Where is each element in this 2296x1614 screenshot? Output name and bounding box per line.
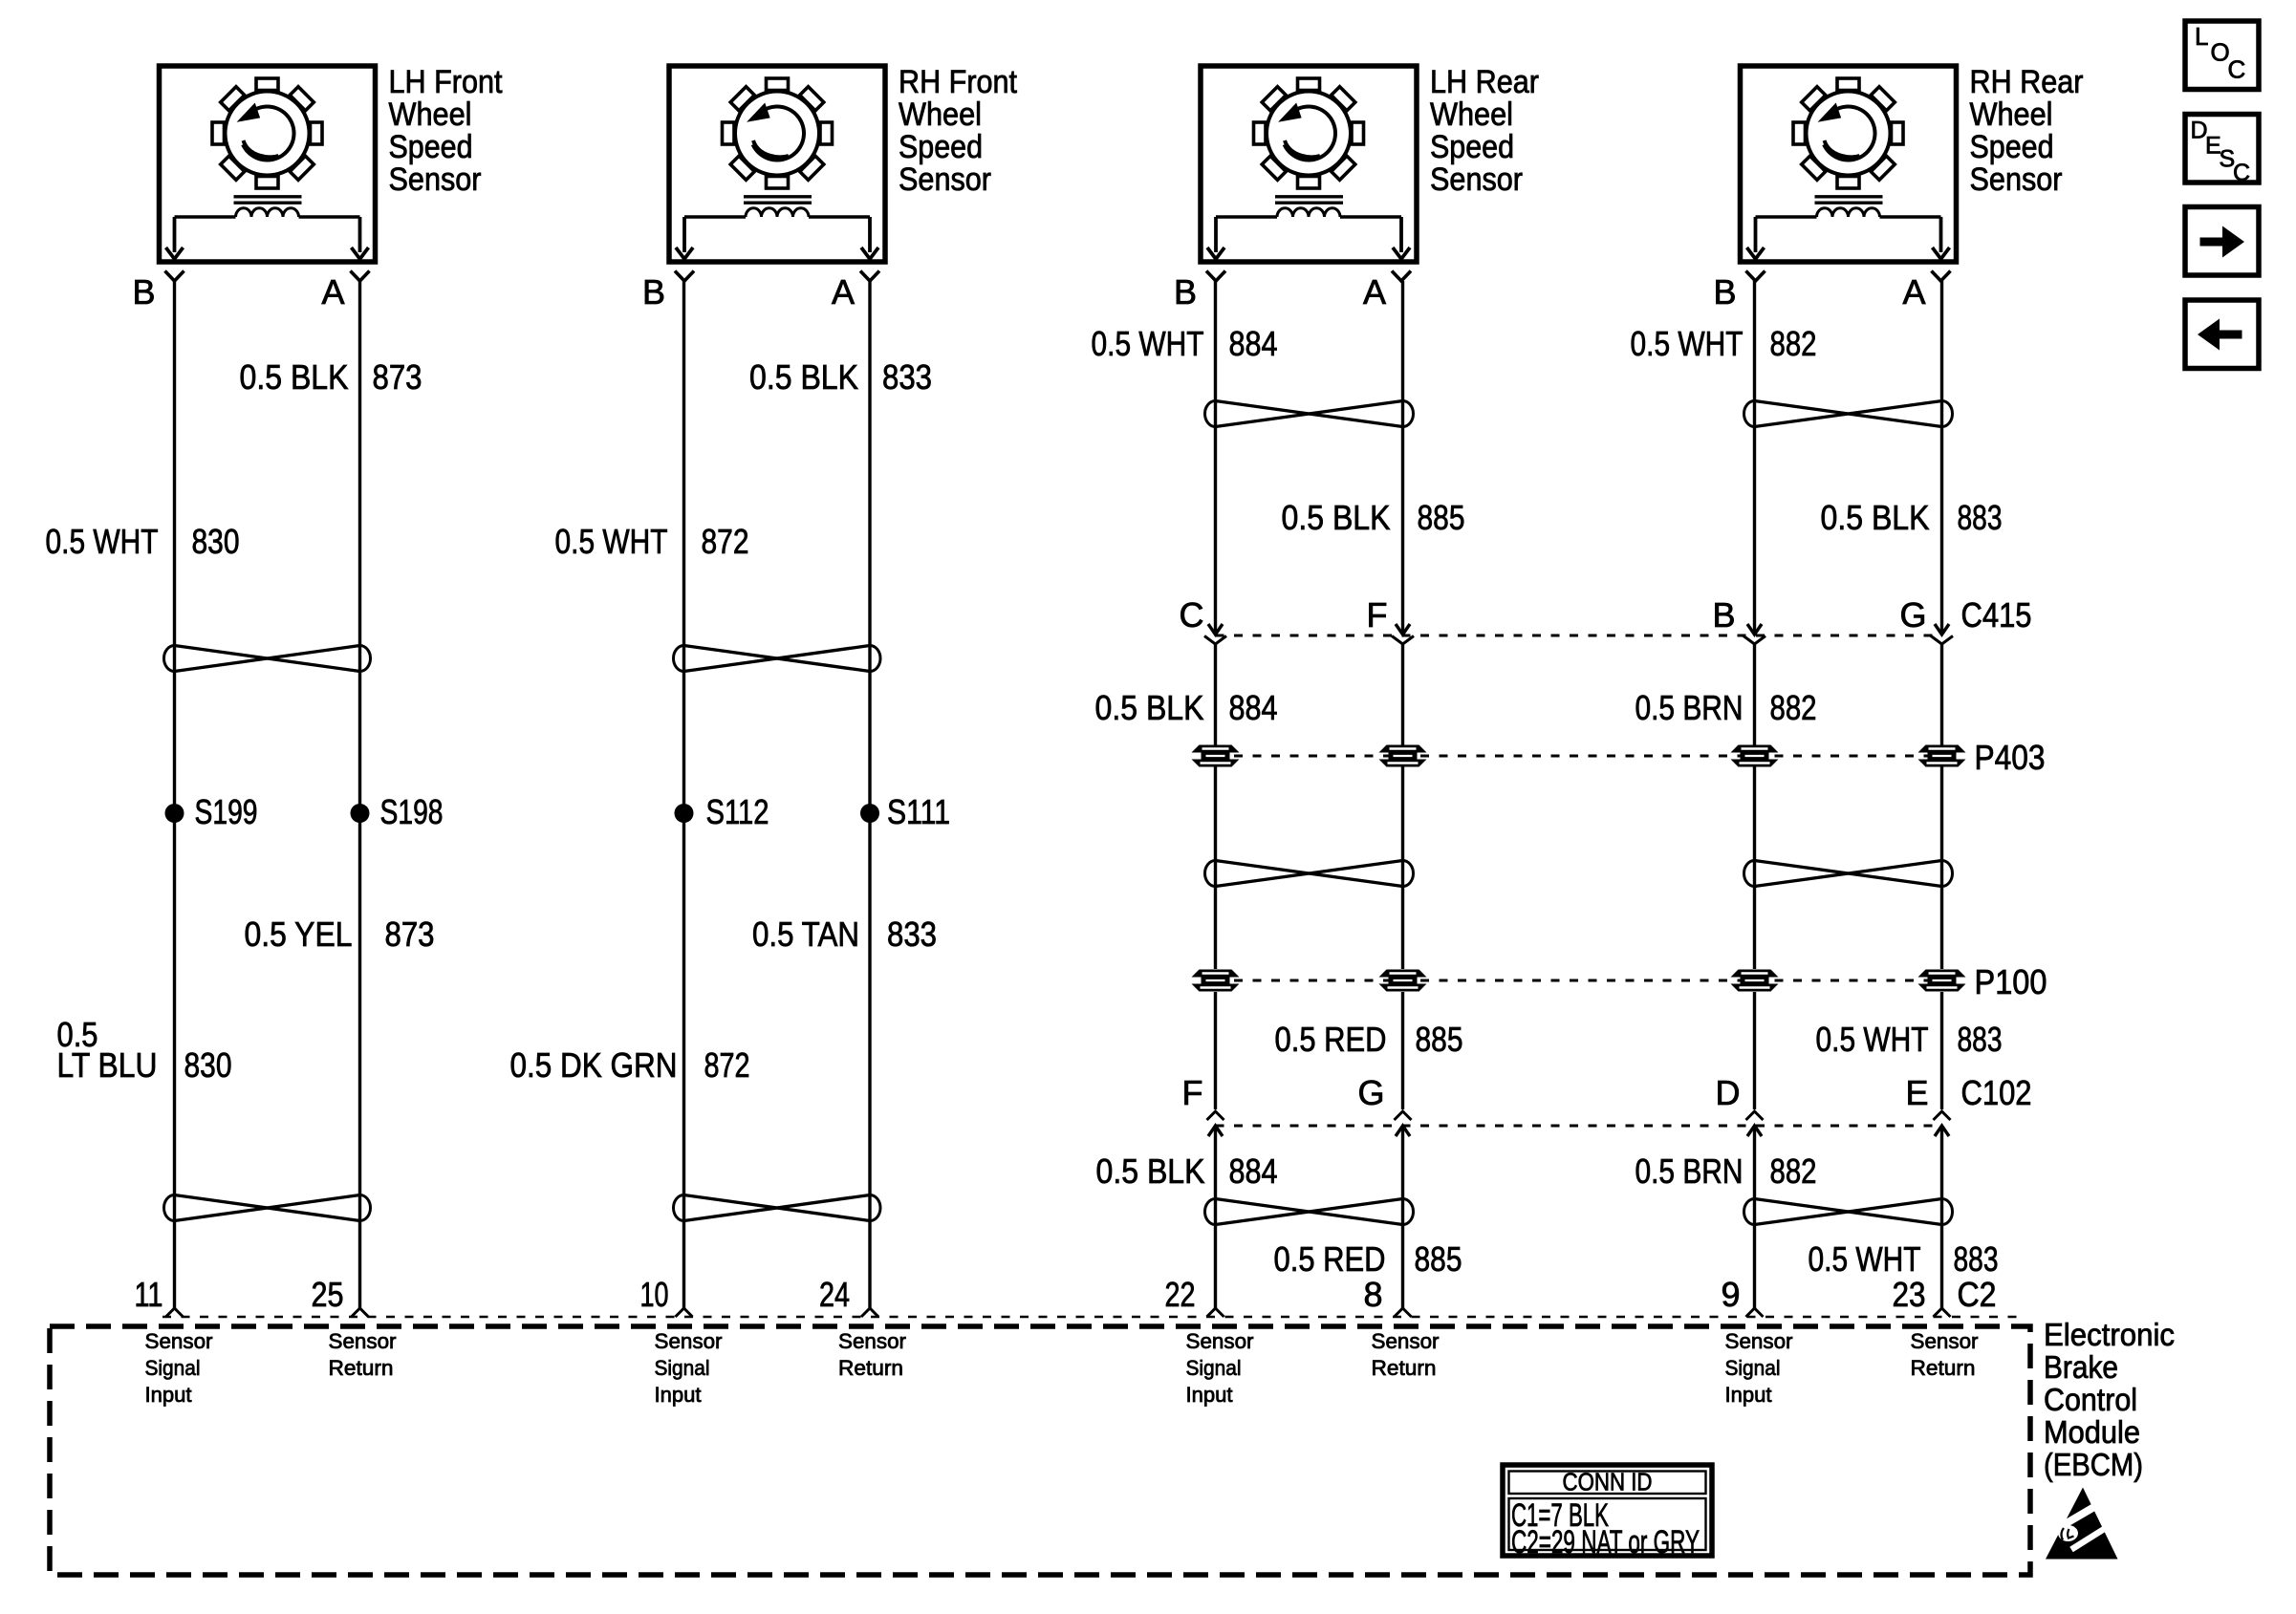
svg-text:Electronic: Electronic	[2044, 1317, 2175, 1352]
svg-text:Return: Return	[838, 1356, 903, 1380]
svg-text:0.5 WHT: 0.5 WHT	[555, 522, 668, 561]
svg-text:0.5 BLK: 0.5 BLK	[1282, 498, 1391, 537]
svg-text:G: G	[1357, 1073, 1384, 1112]
svg-text:B: B	[1713, 272, 1736, 312]
svg-text:F: F	[1367, 595, 1388, 635]
svg-text:G: G	[1899, 595, 1926, 635]
svg-text:Sensor: Sensor	[329, 1329, 397, 1353]
svg-text:23: 23	[1893, 1275, 1926, 1314]
svg-text:Input: Input	[145, 1383, 193, 1407]
svg-text:Sensor: Sensor	[389, 161, 482, 198]
svg-text:873: 873	[373, 357, 422, 397]
svg-text:Sensor: Sensor	[145, 1329, 213, 1353]
svg-text:0.5 RED: 0.5 RED	[1274, 1239, 1386, 1279]
svg-text:S199: S199	[195, 792, 258, 831]
svg-text:Wheel: Wheel	[1430, 97, 1513, 133]
svg-text:P100: P100	[1975, 962, 2047, 1001]
svg-text:C415: C415	[1961, 595, 2032, 635]
svg-text:833: 833	[887, 915, 937, 954]
svg-text:0.5 WHT: 0.5 WHT	[1631, 324, 1744, 363]
svg-text:S111: S111	[887, 792, 950, 831]
svg-text:Return: Return	[1911, 1356, 1976, 1380]
svg-text:A: A	[321, 272, 344, 312]
svg-text:883: 883	[1954, 1239, 1999, 1279]
svg-text:0.5 WHT: 0.5 WHT	[1809, 1239, 1921, 1279]
svg-text:0.5 BLK: 0.5 BLK	[1096, 1151, 1205, 1191]
svg-text:LH Rear: LH Rear	[1430, 64, 1539, 100]
svg-text:Sensor: Sensor	[1911, 1329, 1979, 1353]
svg-text:0.5 WHT: 0.5 WHT	[1816, 1020, 1929, 1059]
svg-text:Signal: Signal	[145, 1356, 201, 1380]
svg-text:B: B	[1174, 272, 1197, 312]
svg-text:0.5 BLK: 0.5 BLK	[1821, 498, 1930, 537]
svg-text:Brake: Brake	[2044, 1349, 2118, 1385]
svg-text:L: L	[2195, 22, 2208, 51]
svg-text:A: A	[1363, 272, 1386, 312]
svg-text:Sensor: Sensor	[1430, 161, 1523, 198]
svg-text:A: A	[832, 272, 855, 312]
svg-text:830: 830	[184, 1045, 232, 1085]
svg-text:Speed: Speed	[389, 129, 473, 165]
svg-text:883: 883	[1958, 498, 2003, 537]
svg-text:Sensor: Sensor	[655, 1329, 723, 1353]
svg-text:884: 884	[1229, 688, 1278, 727]
svg-text:872: 872	[702, 522, 749, 561]
svg-text:872: 872	[704, 1045, 750, 1085]
svg-text:0.5 BLK: 0.5 BLK	[1095, 688, 1204, 727]
svg-text:E: E	[1905, 1073, 1928, 1112]
svg-text:Input: Input	[1725, 1383, 1773, 1407]
svg-text:25: 25	[312, 1275, 344, 1314]
svg-text:884: 884	[1229, 1151, 1278, 1191]
svg-text:Sensor: Sensor	[1186, 1329, 1254, 1353]
svg-text:24: 24	[819, 1275, 850, 1314]
svg-text:D: D	[1716, 1073, 1741, 1112]
svg-text:Control: Control	[2044, 1382, 2137, 1417]
svg-text:LH Front: LH Front	[389, 64, 503, 100]
svg-text:882: 882	[1770, 688, 1817, 727]
svg-text:0.5 YEL: 0.5 YEL	[245, 915, 353, 954]
svg-text:830: 830	[192, 522, 240, 561]
svg-text:Sensor: Sensor	[899, 161, 991, 198]
svg-text:883: 883	[1958, 1020, 2003, 1059]
svg-text:22: 22	[1165, 1275, 1196, 1314]
svg-text:Speed: Speed	[1430, 129, 1514, 165]
svg-text:B: B	[1712, 595, 1735, 635]
svg-text:0.5 BLK: 0.5 BLK	[240, 357, 349, 397]
svg-text:C102: C102	[1961, 1073, 2032, 1112]
svg-text:Sensor: Sensor	[838, 1329, 906, 1353]
svg-text:Sensor: Sensor	[1970, 161, 2063, 198]
svg-text:S198: S198	[380, 792, 444, 831]
svg-text:Return: Return	[329, 1356, 394, 1380]
svg-text:B: B	[642, 272, 665, 312]
svg-text:Signal: Signal	[1186, 1356, 1242, 1380]
svg-text:Speed: Speed	[899, 129, 983, 165]
svg-text:CONN ID: CONN ID	[1563, 1468, 1653, 1496]
svg-text:8: 8	[1363, 1275, 1382, 1314]
svg-text:C: C	[2228, 55, 2246, 84]
svg-text:(EBCM): (EBCM)	[2044, 1447, 2143, 1482]
svg-text:873: 873	[385, 915, 435, 954]
svg-text:Return: Return	[1372, 1356, 1437, 1380]
svg-text:RH Rear: RH Rear	[1970, 64, 2084, 100]
svg-text:C: C	[1180, 595, 1204, 635]
svg-text:Input: Input	[655, 1383, 703, 1407]
svg-text:10: 10	[640, 1275, 669, 1314]
svg-text:Module: Module	[2044, 1414, 2140, 1450]
svg-text:0.5 TAN: 0.5 TAN	[752, 915, 859, 954]
svg-text:882: 882	[1770, 1151, 1817, 1191]
svg-text:Input: Input	[1186, 1383, 1234, 1407]
svg-text:885: 885	[1415, 1239, 1462, 1279]
svg-text:Wheel: Wheel	[389, 97, 472, 133]
svg-text:9: 9	[1721, 1275, 1740, 1314]
svg-text:F: F	[1182, 1073, 1203, 1112]
svg-text:0.5 DK GRN: 0.5 DK GRN	[510, 1045, 678, 1085]
svg-text:Wheel: Wheel	[1970, 97, 2053, 133]
svg-text:Speed: Speed	[1970, 129, 2054, 165]
svg-text:0.5 WHT: 0.5 WHT	[1092, 324, 1204, 363]
svg-text:0.5 BRN: 0.5 BRN	[1635, 1151, 1744, 1191]
svg-text:0.5 BLK: 0.5 BLK	[749, 357, 858, 397]
svg-text:Sensor: Sensor	[1372, 1329, 1440, 1353]
svg-text:11: 11	[135, 1275, 163, 1314]
svg-text:0.5 BRN: 0.5 BRN	[1635, 688, 1744, 727]
svg-text:884: 884	[1229, 324, 1278, 363]
svg-text:885: 885	[1416, 1020, 1463, 1059]
svg-text:P403: P403	[1975, 738, 2046, 777]
svg-text:833: 833	[882, 357, 932, 397]
svg-text:C2: C2	[1958, 1275, 1997, 1314]
svg-text:Sensor: Sensor	[1725, 1329, 1793, 1353]
svg-text:C2=29 NAT or GRY: C2=29 NAT or GRY	[1511, 1524, 1700, 1560]
svg-text:0.5 WHT: 0.5 WHT	[46, 522, 159, 561]
svg-text:RH Front: RH Front	[899, 64, 1017, 100]
svg-text:S112: S112	[706, 792, 769, 831]
svg-text:Wheel: Wheel	[899, 97, 982, 133]
svg-text:C: C	[2233, 160, 2250, 186]
svg-text:B: B	[132, 272, 155, 312]
svg-text:Signal: Signal	[1725, 1356, 1781, 1380]
svg-text:885: 885	[1418, 498, 1465, 537]
svg-text:882: 882	[1770, 324, 1817, 363]
svg-text:0.5 RED: 0.5 RED	[1275, 1020, 1387, 1059]
svg-text:A: A	[1902, 272, 1925, 312]
svg-text:LT BLU: LT BLU	[57, 1045, 158, 1085]
svg-text:Signal: Signal	[655, 1356, 710, 1380]
